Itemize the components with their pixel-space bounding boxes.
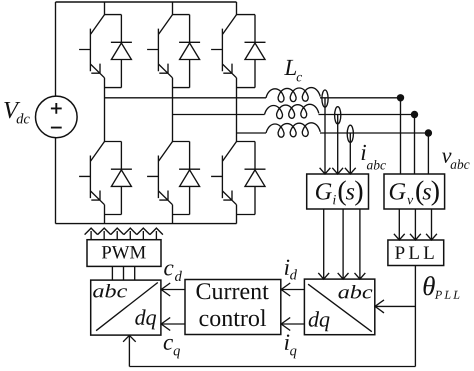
transistor Q4 xyxy=(79,142,104,205)
inductor Lc xyxy=(266,123,320,137)
wire: phase a line from inductor to grid node xyxy=(320,97,401,99)
block Current control xyxy=(185,280,281,335)
current sensor phase b xyxy=(335,107,341,124)
wire: DC positive top bus xyxy=(56,1,237,3)
label Vdc xyxy=(4,102,20,118)
wire: leg 3 upper join bar xyxy=(237,87,256,89)
wire: phase c line from inductor to grid node xyxy=(320,132,428,134)
wires: PWM gate drive arrows to bridge xyxy=(90,231,92,240)
wires: Gi outputs to abc/dq block with arrows xyxy=(323,209,325,279)
label id xyxy=(285,260,289,275)
wire: leg 3 collector from top bus xyxy=(236,2,238,15)
label abc (left block) xyxy=(93,284,127,298)
inductor La xyxy=(266,88,320,102)
wire: leg 1 upper join bar xyxy=(105,87,122,89)
label Gi(s) xyxy=(316,183,332,199)
label Gv(s) xyxy=(390,183,406,199)
wire: leg 1 lower join bar xyxy=(105,214,122,216)
label Lc xyxy=(284,60,296,75)
diode D2 xyxy=(245,142,266,215)
wire: leg 1 lower bend to diode xyxy=(105,141,122,143)
wire: Vdc rail lower segment xyxy=(55,138,57,224)
label iq xyxy=(285,335,289,350)
wire: leg 3 lower bend to diode xyxy=(237,141,256,143)
node: grid connection point phase b xyxy=(411,111,418,118)
wire: theta feedback bottom run xyxy=(129,366,415,368)
inductor Lb xyxy=(265,104,319,118)
wire: current sense line phase c into Gi with arrow xyxy=(349,133,351,174)
current sensor phase a xyxy=(322,90,328,107)
wire: phase b line from inductor to grid node xyxy=(319,114,415,116)
block dq to abc transform (left) xyxy=(91,280,161,335)
block PWM xyxy=(87,240,161,267)
wire: cd from Current control to dq/abc with arrow xyxy=(161,289,185,291)
wire: current sense line phase b into Gi with arrow xyxy=(337,115,339,175)
label theta_PLL xyxy=(424,276,435,295)
wire: leg 3 upper bend to diode xyxy=(237,14,256,16)
wire: leg 2 upper bend to diode xyxy=(173,14,190,16)
wire: phase c line from leg to inductor xyxy=(237,132,267,134)
diode D4 xyxy=(111,142,132,215)
diode D1 xyxy=(111,15,132,88)
wire: phase a line from leg to inductor xyxy=(105,97,267,99)
wire: theta branch into abc/dq block with arrow xyxy=(375,305,416,307)
transistor Q1 xyxy=(79,15,104,78)
label Current control xyxy=(197,283,269,299)
transistor Q2 xyxy=(211,142,236,205)
wire: leg 3 midpoint vertical xyxy=(236,78,238,142)
wire: Vdc rail upper segment xyxy=(55,2,57,96)
wire: voltage sense line phase c to Gv xyxy=(427,133,429,174)
wire: leg 1 upper bend to diode xyxy=(105,14,122,16)
wire: voltage sense line phase b to Gv xyxy=(414,115,416,175)
transistor Q3 xyxy=(147,15,172,78)
label dq (right block) xyxy=(309,311,330,331)
wires: Gv outputs to PLL with arrows xyxy=(398,209,400,240)
wire: theta feedback up into dq/abc block with arrow xyxy=(128,335,130,366)
label i_abc xyxy=(362,145,366,160)
label PWM xyxy=(102,246,146,259)
wire: leg 2 upper join bar xyxy=(173,87,190,89)
diode D6 xyxy=(179,142,200,215)
label cd xyxy=(164,265,173,276)
wire: cq from Current control to dq/abc with arrow xyxy=(161,323,185,325)
transistor Q6 xyxy=(147,142,172,205)
label dq (left block) xyxy=(135,309,156,329)
diode D3 xyxy=(179,15,200,88)
wire: DC negative bottom bus xyxy=(56,223,237,225)
label v_abc xyxy=(442,153,452,163)
wire: leg 2 collector from top bus xyxy=(172,2,174,15)
block Gv(s) voltage measurement filter xyxy=(384,174,445,209)
wire: voltage sense line phase a to Gv xyxy=(400,98,402,174)
block Gi(s) current measurement filter xyxy=(307,174,369,209)
node: grid connection point phase a xyxy=(397,94,404,101)
wire: leg 1 collector from top bus xyxy=(104,2,106,15)
wire: leg 2 lower join bar xyxy=(173,214,190,216)
diode D5 xyxy=(245,15,266,88)
wire: PLL theta output down xyxy=(414,266,416,367)
voltage source Vdc xyxy=(36,96,78,138)
wire: leg 2 emitter to bottom bus xyxy=(172,205,174,224)
block abc to dq transform (right) xyxy=(304,279,374,335)
wire: iq from abc/dq to Current control with arrow xyxy=(281,323,304,325)
wires: dq/abc block outputs to PWM xyxy=(111,266,113,280)
wire: leg 2 lower bend to diode xyxy=(173,141,190,143)
label PLL xyxy=(395,247,434,259)
wire: id from abc/dq to Current control with arrow xyxy=(281,289,304,291)
wire: leg 3 emitter to bottom bus xyxy=(236,205,238,224)
label abc (right block) xyxy=(338,285,372,299)
wire: leg 3 lower join bar xyxy=(237,214,256,216)
wire: leg 1 emitter to bottom bus xyxy=(104,205,106,224)
wire: leg 2 midpoint vertical xyxy=(172,78,174,142)
block PLL xyxy=(388,240,444,266)
node: grid connection point phase c xyxy=(425,129,432,136)
label cq xyxy=(164,339,173,350)
wire: phase b line from leg to inductor xyxy=(173,114,265,116)
wire: current sense line phase a into Gi with arrow xyxy=(324,98,326,174)
transistor Q5 xyxy=(211,15,236,78)
wire: leg 1 midpoint vertical xyxy=(104,78,106,142)
current sensor phase c xyxy=(347,125,353,142)
